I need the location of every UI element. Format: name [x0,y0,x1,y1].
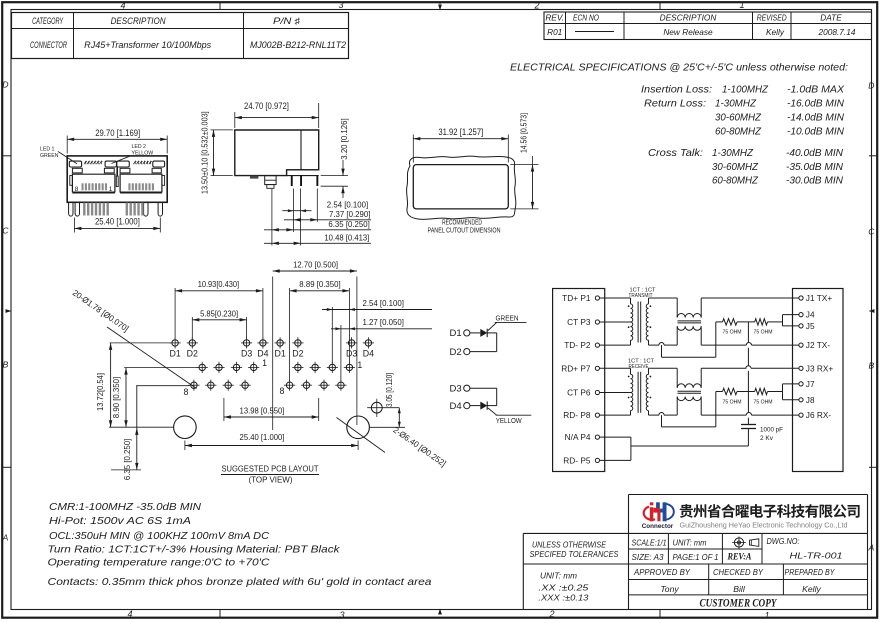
svg-text:8: 8 [279,386,284,396]
svg-text:Insertion Loss:: Insertion Loss: [641,84,712,96]
svg-text:3.05 [0.120]: 3.05 [0.120] [384,373,394,407]
svg-text:8: 8 [183,387,188,397]
svg-text:J2 TX-: J2 TX- [806,340,831,350]
svg-text:24.70 [0.972]: 24.70 [0.972] [244,101,289,111]
svg-text:10.48 [0.413]: 10.48 [0.413] [324,233,369,243]
company name chinese [680,504,860,518]
svg-text:60-80MHZ: 60-80MHZ [715,126,762,138]
svg-text:1-30MHZ: 1-30MHZ [712,147,754,159]
LED green diode symbol [480,329,487,337]
dimension 25.40 pcb [184,441,186,451]
LED yellow diode symbol [470,405,480,407]
svg-text:ECN NO: ECN NO [573,13,599,23]
front view pin span dimension 25.40 [73,218,75,233]
revision table [544,12,872,40]
company logo mark [664,504,674,520]
diode D4 pin [464,403,470,409]
zone tick marks and center arrows [219,2,221,9]
jack pin box [793,289,844,472]
svg-text:D1: D1 [274,349,285,359]
svg-text:RD+ P7: RD+ P7 [561,363,591,373]
svg-text:R01: R01 [547,27,562,37]
svg-text:D1: D1 [450,328,462,339]
svg-text:ELECTRICAL SPECIFICATIONS @: ELECTRICAL SPECIFICATIONS @ 25'C+/-5'C u… [510,62,848,74]
choke L2 receive [649,367,678,369]
svg-text:GuiZhousheng HeYao Electronic: GuiZhousheng HeYao Electronic Technology… [680,521,848,530]
transformer T2 receive [600,367,631,369]
svg-text:A: A [2,533,9,543]
panel wavy outline [407,156,516,219]
svg-text:RD- P8: RD- P8 [563,410,591,420]
dimension 10.93 [174,288,176,339]
svg-text:29.70 [1.169]: 29.70 [1.169] [95,128,140,138]
svg-text:A: A [867,543,874,553]
svg-text:C: C [2,226,9,236]
side view depth dimension 24.70 [234,112,236,128]
choke L1 transmit [649,297,678,299]
pin J6 [799,413,803,417]
svg-text:J7: J7 [806,379,815,389]
svg-text:1.27 [0.050]: 1.27 [0.050] [363,317,404,327]
svg-text:2: 2 [533,1,539,11]
svg-text:.XXX :±0.13: .XXX :±0.13 [538,593,588,603]
svg-text:5.85[0.230]: 5.85[0.230] [200,308,238,318]
side view stacked dimensions [271,189,273,246]
svg-text:RECEIVE: RECEIVE [629,364,649,370]
category table [12,13,349,59]
hole leader 20-dia1.78 [107,327,197,389]
svg-text:D: D [868,81,874,91]
svg-text:3.20 [0.126]: 3.20 [0.126] [339,118,349,159]
TX return detour [661,345,663,357]
wire to termination TX [715,322,717,345]
pin J1 [799,296,803,300]
svg-text:14.56 [0.573]: 14.56 [0.573] [518,113,528,153]
svg-text:CHECKED BY: CHECKED BY [713,567,764,577]
dimension 13.98 [223,398,225,421]
svg-text:4: 4 [127,609,132,619]
pin J2 [799,343,803,347]
svg-text:GREEN: GREEN [40,153,59,159]
svg-text:J4: J4 [806,310,815,320]
svg-text:13.72[0.54]: 13.72[0.54] [95,373,105,411]
hole leader 2-dia6.40 [337,418,386,453]
svg-text:CATEGORY: CATEGORY [32,16,64,26]
side view height dimension 13.50 [211,129,233,131]
svg-text:-10.0dB MIN: -10.0dB MIN [787,126,844,138]
svg-text:4: 4 [120,1,125,11]
svg-text:D4: D4 [363,349,374,359]
pcb layout lower pin row [191,382,197,388]
svg-text:D4: D4 [450,401,462,412]
title block frame [629,494,868,496]
GREEN label [488,322,497,330]
svg-text:2.54 [0.100]: 2.54 [0.100] [327,199,368,209]
svg-text:New Release: New Release [663,27,713,37]
svg-text:TD+ P1: TD+ P1 [562,293,591,303]
svg-text:D2: D2 [187,349,198,359]
wire to termination RX [715,392,717,416]
front view left port opening [72,174,115,192]
svg-text:LED 2: LED 2 [132,144,147,150]
svg-text:30-60MHZ: 30-60MHZ [715,112,762,124]
svg-text:D2: D2 [450,347,462,358]
dimension 8.89 [289,288,291,381]
svg-text:Tony: Tony [660,584,679,594]
pin J8 [799,398,803,402]
resistor R4 75 OHM [755,388,768,394]
svg-text:-16.0dB MIN: -16.0dB MIN [787,98,844,110]
svg-text:75 OHM: 75 OHM [754,399,773,405]
svg-text:PANEL CUTOUT DIMENSION: PANEL CUTOUT DIMENSION [428,225,501,234]
svg-text:Kelly: Kelly [802,584,821,594]
svg-text:1-30MHZ: 1-30MHZ [715,98,757,110]
dimension 6.35 pcb [136,385,189,387]
front view width dimension 29.70 [66,136,68,154]
svg-text:Bill: Bill [733,584,746,594]
svg-text:CT P3: CT P3 [567,317,591,327]
svg-text:30-60MHZ: 30-60MHZ [712,161,759,173]
svg-text:J8: J8 [806,395,815,405]
diode D3 pin [464,385,470,391]
J7 J8 bracket [782,384,784,400]
svg-text:6.35 [0.250]: 6.35 [0.250] [328,219,369,229]
front view shield legs [69,203,73,216]
svg-text:D1: D1 [169,349,180,359]
svg-text:TD- P2: TD- P2 [564,340,591,350]
svg-text:D2: D2 [292,349,303,359]
svg-text:Connector: Connector [642,523,674,530]
svg-text:75 OHM: 75 OHM [754,330,773,336]
hole center extension line [109,426,174,428]
svg-text:APPROVED BY: APPROVED BY [633,567,691,577]
svg-text:B: B [3,360,9,370]
front view left port contacts [82,183,84,190]
svg-text:75 OHM: 75 OHM [723,399,742,405]
svg-text:60-80MHZ: 60-80MHZ [712,175,759,187]
front view vent marks [84,161,87,164]
side view solder tab [250,176,258,179]
svg-text:Contacts: 0.35mm thick phos: Contacts: 0.35mm thick phos bronze plate… [48,576,432,588]
svg-text:DESCRIPTION: DESCRIPTION [111,16,167,26]
wire D1 to LED [470,332,480,334]
svg-text:6.35 [0.250]: 6.35 [0.250] [122,439,132,480]
svg-text:YELLOW: YELLOW [496,416,522,425]
wire R1 to R2 [737,321,755,323]
svg-text:D3: D3 [450,384,462,395]
svg-text:3: 3 [338,0,343,10]
svg-text:REVISED: REVISED [757,13,787,23]
dimension 12.70 [272,277,274,431]
svg-text:CONNECTOR: CONNECTOR [30,40,67,50]
resistor R2 75 OHM [755,319,768,325]
dimension 1.27 pcb [340,325,342,381]
svg-text:1: 1 [262,358,267,368]
pcb layout LED pads row [172,340,178,346]
svg-text:LED 1: LED 1 [40,147,55,153]
wire TX- rail [649,344,660,346]
front view LED housings [72,168,82,173]
svg-text:D3: D3 [241,349,252,359]
wire R2 to J4 J5 tap [768,321,783,323]
svg-text:2: 2 [548,609,554,619]
svg-text:SPECIFED TOLERANCES: SPECIFED TOLERANCES [530,549,619,559]
svg-text:C: C [868,227,875,237]
svg-text:25.40 [1.000]: 25.40 [1.000] [240,432,285,442]
svg-text:-1.0dB MAX: -1.0dB MAX [787,84,845,96]
svg-text:31.92 [1.257]: 31.92 [1.257] [438,127,483,137]
svg-text:1: 1 [109,186,113,193]
svg-text:CT P6: CT P6 [567,388,591,398]
svg-text:B: B [868,361,874,371]
svg-text:P/N ♯: P/N ♯ [273,16,301,26]
svg-text:25.40 [1.000]: 25.40 [1.000] [95,216,140,226]
svg-text:OCL:350uH MIN @ 100KHZ 100: OCL:350uH MIN @ 100KHZ 100mV 8mA DC [49,530,269,542]
svg-text:SIZE: A3: SIZE: A3 [632,552,664,562]
svg-text:SUGGESTED PCB LAYOUT: SUGGESTED PCB LAYOUT [222,464,319,474]
side view body [235,130,319,176]
svg-text:8.90 [0.350]: 8.90 [0.350] [111,377,121,418]
front view right port contacts [128,183,130,190]
YELLOW label [488,408,497,415]
svg-text:PAGE:1 OF 1: PAGE:1 OF 1 [673,552,719,562]
panel cutout rectangle [413,165,508,209]
svg-text:J3 RX+: J3 RX+ [806,363,834,373]
panel cutout height dimension 14.56 [510,164,538,166]
dimension 3.05 [398,408,400,428]
svg-text:-40.0dB MIN: -40.0dB MIN [786,147,843,159]
svg-text:YELLOW: YELLOW [132,151,154,157]
panel cutout width dimension 31.92 [412,135,414,163]
svg-text:REV.: REV. [545,13,564,23]
svg-text:10.93[0.430]: 10.93[0.430] [198,279,239,289]
svg-text:13.98 [0.550]: 13.98 [0.550] [240,406,285,416]
svg-text:Turn Ratio: 1CT:1CT+/-3%: Turn Ratio: 1CT:1CT+/-3% Housing Materia… [48,544,341,556]
svg-text:1000 pF: 1000 pF [760,427,783,434]
svg-text:(TOP VIEW): (TOP VIEW) [249,475,293,485]
svg-text:Return Loss:: Return Loss: [644,98,706,110]
svg-text:Cross Talk:: Cross Talk: [648,147,703,159]
svg-text:RJ45+Transformer 10/100Mbps: RJ45+Transformer 10/100Mbps [84,40,212,50]
svg-text:.XX :±0.25: .XX :±0.25 [538,583,588,593]
svg-text:CUSTOMER COPY: CUSTOMER COPY [700,597,778,609]
svg-text:PREPARED BY: PREPARED BY [785,567,836,577]
svg-text:SCALE:1/1: SCALE:1/1 [632,537,667,547]
pcb layout aux pad [371,402,382,413]
svg-text:RD- P5: RD- P5 [563,455,591,465]
svg-text:CMR:1-100MHZ -35.0dB MIN: CMR:1-100MHZ -35.0dB MIN [49,501,201,513]
svg-text:1: 1 [739,0,744,10]
RX return detour [661,415,663,427]
front view center divider [116,176,118,187]
side view latch [265,176,276,185]
svg-text:N/A P4: N/A P4 [565,432,591,442]
svg-text:75 OHM: 75 OHM [723,330,742,336]
svg-text:8: 8 [75,186,79,193]
svg-text:UNLESS OTHERWISE: UNLESS OTHERWISE [532,540,606,550]
svg-text:12.70 [0.500]: 12.70 [0.500] [293,260,338,270]
pin J3 [799,366,803,370]
svg-text:8.89 [0.350]: 8.89 [0.350] [299,279,340,289]
pcb layout middle pin row [199,364,205,370]
dimension 2.54 pcb [331,307,333,363]
diode D1 pin [464,330,470,336]
svg-text:2 Kv: 2 Kv [760,435,774,442]
dimension 8.90 [124,367,197,369]
svg-text:HL-TR-001: HL-TR-001 [790,551,843,561]
svg-text:D: D [2,80,8,90]
svg-text:D3: D3 [346,349,357,359]
svg-text:UNIT: mm: UNIT: mm [673,537,707,547]
wire R3 to R4 [737,391,755,393]
wire D3 to D4 via LED [470,387,497,389]
svg-text:DWG.NO:: DWG.NO: [767,536,801,546]
wire capacitor to P4 P5 [747,429,749,447]
svg-text:DATE: DATE [820,13,842,23]
capacitor C1 1000pF 2Kv [741,424,756,426]
connector pin box [553,289,605,472]
front view connector body [67,156,167,202]
svg-text:7.37 [0.290]: 7.37 [0.290] [329,209,370,219]
svg-text:GREEN: GREEN [496,314,519,323]
svg-text:UNIT: mm: UNIT: mm [540,571,577,581]
wire RX- rail [649,414,660,416]
pin J5 [799,324,803,328]
J4 J5 bracket [782,315,784,326]
svg-text:DESCRIPTION: DESCRIPTION [660,13,717,23]
svg-text:J1 TX+: J1 TX+ [806,293,833,303]
svg-text:Operating temperature range:: Operating temperature range:0'C to +70'C [48,557,270,569]
svg-text:2.54 [0.100]: 2.54 [0.100] [363,298,404,308]
svg-text:2008.7.14: 2008.7.14 [817,27,855,37]
dimension 5.85 [191,317,193,339]
svg-text:-14.0dB MIN: -14.0dB MIN [787,112,844,124]
svg-text:1: 1 [764,611,769,621]
svg-text:J6 RX-: J6 RX- [806,410,832,420]
wire TX+ to J1 [701,297,799,299]
pin J7 [799,382,803,386]
svg-text:13.50±0.10 [0.532±0.003]: 13.50±0.10 [0.532±0.003] [200,111,210,194]
svg-text:3: 3 [339,610,344,620]
front view LED windows row [69,161,81,167]
svg-text:-30.0dB MIN: -30.0dB MIN [786,175,843,187]
dimension 13.72 [110,342,171,344]
svg-text:MJ002B-B212-RNL11T2: MJ002B-B212-RNL11T2 [250,40,346,50]
transformer T1 transmit [600,297,631,299]
projection symbol [734,538,743,547]
pcb layout mounting holes [174,416,197,439]
pin J4 [799,313,803,317]
wire RX+ to J3 [701,367,746,369]
side view pins [291,176,293,186]
common termination wire [747,322,749,343]
svg-text:1-100MHZ: 1-100MHZ [722,84,769,96]
svg-text:Kelly: Kelly [766,27,785,37]
svg-text:-35.0dB MIN: -35.0dB MIN [786,161,843,173]
diode D2 pin [464,349,470,355]
svg-text:REV:A: REV:A [727,553,752,563]
wire LED to D2 [487,332,497,334]
front view solder pins [83,203,85,216]
svg-text:J5: J5 [806,321,815,331]
svg-text:1: 1 [357,360,362,370]
resistor R3 75 OHM [723,388,738,394]
front view right port opening [120,174,162,192]
side view pin length dimension 3.20 [321,175,348,177]
wire R4 to J7 J8 tap [768,391,783,393]
resistor R1 75 OHM [723,319,738,325]
svg-text:Hi-Pot: 1500v AC 6S 1mA: Hi-Pot: 1500v AC 6S 1mA [49,515,191,527]
